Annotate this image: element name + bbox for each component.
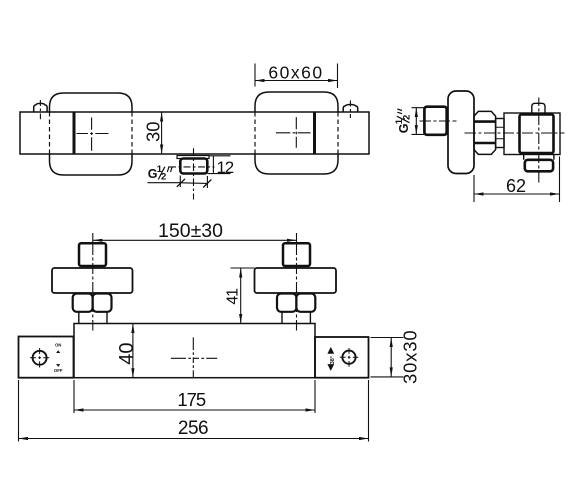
dimension 150+-30 — [93, 220, 297, 242]
dimension G1/2 (plan outlet) with label — [148, 164, 212, 188]
left inlet flange — [52, 268, 133, 293]
wall bar body — [20, 112, 369, 154]
right cap screw circle — [342, 351, 355, 364]
svg-text:60x60: 60x60 — [268, 63, 323, 83]
left handle cap edge (thick) — [73, 112, 76, 154]
right handle center cross — [276, 117, 311, 148]
left stub centerline — [39, 100, 41, 119]
svg-text:175: 175 — [177, 389, 206, 410]
38 degree arrows — [327, 347, 336, 371]
outlet horizontal centerline — [168, 166, 214, 168]
outlet port (side) — [525, 160, 553, 172]
svg-text:ON: ON — [55, 343, 61, 348]
valve body (side, outer) — [504, 113, 560, 155]
dimension 40 — [116, 324, 138, 378]
dimension 60x60 — [255, 63, 338, 89]
svg-text:41: 41 — [224, 288, 241, 305]
dimension 12 (plan outlet height) — [207, 156, 233, 177]
right inlet top square — [283, 243, 310, 266]
svg-text:OFF: OFF — [54, 368, 63, 373]
left top stub — [34, 103, 47, 112]
handle plate (side, thick square) — [520, 115, 554, 154]
outlet vertical centerline — [193, 148, 195, 199]
left cap screw circle — [33, 351, 47, 365]
valve body — [74, 324, 315, 378]
svg-text:256: 256 — [178, 418, 208, 439]
svg-text:30x30: 30x30 — [400, 330, 421, 384]
shower outlet body (plan) — [180, 159, 207, 174]
dimension 62 — [474, 157, 560, 203]
outlet neck (side) — [524, 155, 554, 160]
wall nipple axis centerline — [420, 120, 457, 122]
right circle cross — [340, 348, 359, 367]
svg-text:150±30: 150±30 — [158, 220, 223, 242]
dimension 30x30 — [371, 330, 421, 384]
right inlet pipe — [282, 312, 310, 324]
right top stub — [343, 105, 358, 113]
svg-text:30: 30 — [142, 121, 163, 142]
dimension 256 — [19, 380, 369, 442]
vertical centerline (side) — [538, 98, 540, 183]
hex nut (side) — [474, 111, 496, 154]
threaded wall nipple — [424, 107, 446, 135]
right handle cap edge (thick) — [313, 112, 316, 154]
top stub (side) — [532, 103, 545, 113]
left handle square (hidden edges dashed through bar) — [50, 93, 133, 175]
right inlet hex nut — [277, 294, 315, 312]
connector sleeve — [496, 119, 504, 148]
right handle square — [255, 92, 338, 174]
right end cap — [315, 337, 369, 378]
right inlet centerline — [296, 233, 298, 331]
wall flange plate — [448, 91, 474, 174]
left circle cross — [30, 348, 49, 368]
left inlet pipe — [79, 312, 107, 324]
shower outlet flange (plan) — [177, 156, 209, 159]
svg-text:62: 62 — [506, 176, 526, 196]
dimension G1/2 (side) — [394, 108, 424, 135]
left end cap — [19, 337, 74, 378]
right inlet flange — [255, 268, 337, 293]
dimension 41 — [224, 268, 254, 324]
body center cross — [171, 337, 217, 377]
svg-text:40: 40 — [116, 343, 138, 365]
dimension 175 — [74, 380, 315, 413]
ON / OFF labels — [54, 343, 63, 374]
svg-text:38°: 38° — [330, 356, 336, 364]
svg-text:12: 12 — [217, 158, 234, 177]
left inlet hex nut — [73, 294, 112, 312]
dimension 30 (bar height) — [142, 112, 163, 154]
right stub centerline — [349, 101, 351, 119]
left inlet top square — [79, 243, 106, 266]
left handle center cross — [77, 118, 109, 151]
main axis centerline — [465, 132, 565, 134]
left inlet centerline — [92, 233, 94, 331]
